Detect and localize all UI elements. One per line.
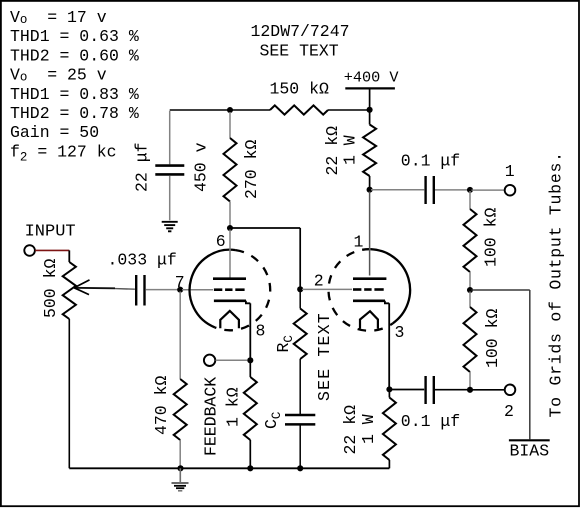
svg-text:+400 V: +400 V bbox=[344, 69, 400, 87]
svg-text:22 kΩ: 22 kΩ bbox=[323, 126, 342, 176]
svg-text:To Grids of Output Tubes.: To Grids of Output Tubes. bbox=[547, 151, 566, 417]
svg-text:THD2 = 0.78 %: THD2 = 0.78 % bbox=[10, 104, 139, 123]
svg-text:THD1 = 0.63 %: THD1 = 0.63 % bbox=[10, 27, 139, 46]
resistor 150 kOhm bbox=[270, 105, 328, 114]
heater V2 bbox=[360, 311, 378, 328]
junction plate node V2 bbox=[367, 187, 373, 193]
svg-text:RC: RC bbox=[274, 335, 296, 352]
pot wiper arrow bbox=[74, 287, 115, 290]
wire into grid V2 bbox=[302, 288, 352, 290]
wire pot bottom to ground rail bbox=[68, 319, 70, 468]
tube V1 envelope bbox=[190, 250, 236, 328]
svg-text:f2 = 127 kc: f2 = 127 kc bbox=[10, 142, 117, 164]
svg-text:BIAS: BIAS bbox=[510, 442, 550, 461]
svg-text:.033 μf: .033 μf bbox=[108, 251, 177, 270]
cathode V2 bbox=[353, 299, 385, 302]
svg-text:1 W: 1 W bbox=[359, 414, 378, 444]
svg-text:270 kΩ: 270 kΩ bbox=[242, 139, 261, 199]
wire +400V drop to rail bbox=[369, 89, 371, 110]
svg-text:12DW7/7247: 12DW7/7247 bbox=[251, 22, 350, 41]
wire into grid V1 bbox=[182, 289, 213, 291]
junction CC ground bbox=[297, 465, 303, 471]
resistor 470 kOhm bbox=[179, 292, 181, 380]
svg-text:INPUT: INPUT bbox=[25, 222, 76, 241]
junction plate V1 node bbox=[227, 225, 233, 231]
wire plate lead V2 bbox=[369, 192, 371, 276]
capacitor .033 uF bbox=[135, 275, 137, 306]
junction grid V2 node bbox=[297, 286, 303, 292]
svg-text:100 kΩ: 100 kΩ bbox=[482, 207, 501, 267]
wire cap to grid junction bbox=[146, 289, 178, 291]
capacitor 22 uF 450 v bbox=[169, 111, 171, 165]
ground below 22uF bbox=[162, 221, 178, 223]
wire cathode V1 down bbox=[249, 303, 251, 358]
ground rail bbox=[69, 467, 389, 469]
BIAS terminal bbox=[509, 439, 550, 441]
wire plate node to grid V2 (L) bbox=[230, 227, 300, 229]
wire top rail left segment bbox=[170, 109, 270, 111]
junction 1k ground bbox=[247, 465, 253, 471]
resistor 100 kOhm (upper) bbox=[469, 191, 471, 209]
svg-text:1 kΩ: 1 kΩ bbox=[224, 387, 243, 427]
capacitor CC bbox=[285, 414, 315, 417]
svg-text:6: 6 bbox=[216, 232, 226, 251]
svg-text:CC: CC bbox=[262, 412, 284, 429]
capacitor 0.1 uF (lower) bbox=[391, 389, 424, 391]
svg-text:1: 1 bbox=[354, 233, 364, 252]
svg-text:Vo = 17 v: Vo = 17 v bbox=[10, 8, 107, 27]
plate V1 bbox=[213, 277, 246, 280]
terminal 1 bbox=[505, 185, 516, 196]
svg-text:Gain = 50: Gain = 50 bbox=[10, 123, 99, 142]
svg-text:0.1 μf: 0.1 μf bbox=[401, 152, 460, 171]
cathode V1 bbox=[214, 299, 246, 302]
wire cathode V2 down bbox=[388, 303, 390, 388]
resistor RC bbox=[299, 291, 301, 309]
junction output 2 node bbox=[467, 387, 473, 393]
plate V2 bbox=[353, 277, 386, 280]
resistor 22 kOhm 1 W (cathode) bbox=[388, 391, 390, 398]
svg-text:150 kΩ: 150 kΩ bbox=[270, 79, 330, 98]
svg-text:1 W: 1 W bbox=[341, 135, 360, 165]
terminal 2 bbox=[505, 385, 516, 396]
ground symbol below rail bbox=[179, 468, 181, 482]
svg-text:7: 7 bbox=[175, 273, 185, 292]
junction output 1 node bbox=[467, 187, 473, 193]
grid V1 bbox=[214, 288, 222, 291]
svg-text:Vo = 25 v: Vo = 25 v bbox=[10, 66, 107, 85]
svg-text:500 kΩ: 500 kΩ bbox=[41, 258, 60, 318]
svg-text:FEEDBACK: FEEDBACK bbox=[202, 377, 221, 456]
wire plate lead V1 bbox=[229, 230, 231, 278]
svg-text:450 v: 450 v bbox=[192, 142, 211, 192]
wire CC to ground rail bbox=[299, 426, 301, 469]
svg-text:0.1 μf: 0.1 μf bbox=[401, 412, 460, 431]
FEEDBACK terminal bbox=[204, 355, 215, 366]
potentiometer 500 kOhm bbox=[68, 250, 70, 262]
wire to terminal 2 bbox=[472, 389, 505, 391]
svg-text:8: 8 bbox=[256, 322, 266, 341]
junction +400V node bbox=[367, 107, 373, 113]
svg-text:2: 2 bbox=[314, 272, 324, 291]
heater V1 bbox=[220, 311, 239, 328]
junction grid pin 7 node bbox=[177, 287, 183, 293]
tube V2 envelope bbox=[371, 249, 410, 323]
junction cathode V2 node bbox=[386, 386, 392, 392]
junction feedback node bbox=[247, 357, 253, 363]
resistor 270 kOhm bbox=[229, 112, 231, 138]
svg-text:2: 2 bbox=[504, 402, 514, 421]
junction 470k ground bbox=[177, 465, 183, 471]
grid V2 bbox=[353, 288, 361, 291]
svg-text:100 kΩ: 100 kΩ bbox=[483, 308, 502, 368]
svg-text:THD1 = 0.83 %: THD1 = 0.83 % bbox=[10, 85, 139, 104]
junction top rail / 270k / 22uF bbox=[227, 107, 233, 113]
resistor 22 kOhm 1 W (plate load) bbox=[369, 111, 371, 125]
resistor 100 kOhm (lower) bbox=[469, 292, 471, 308]
resistor 1 kOhm bbox=[249, 362, 251, 377]
svg-text:SEE TEXT: SEE TEXT bbox=[260, 42, 339, 61]
wire to terminal 1 bbox=[472, 189, 505, 191]
wire input to pot bbox=[35, 249, 69, 251]
svg-text:3: 3 bbox=[395, 323, 405, 342]
capacitor 0.1 uF (upper) bbox=[371, 189, 424, 191]
svg-text:22 kΩ: 22 kΩ bbox=[341, 405, 360, 455]
svg-text:THD2 = 0.60 %: THD2 = 0.60 % bbox=[10, 46, 139, 65]
svg-text:1: 1 bbox=[505, 162, 515, 181]
svg-text:470 kΩ: 470 kΩ bbox=[152, 375, 171, 435]
svg-text:22 μf: 22 μf bbox=[133, 142, 152, 192]
junction 100k divider mid bbox=[467, 287, 473, 293]
svg-text:SEE TEXT: SEE TEXT bbox=[315, 312, 334, 401]
wire top rail right segment bbox=[328, 109, 370, 111]
wire divider mid to bias line bbox=[472, 289, 530, 291]
